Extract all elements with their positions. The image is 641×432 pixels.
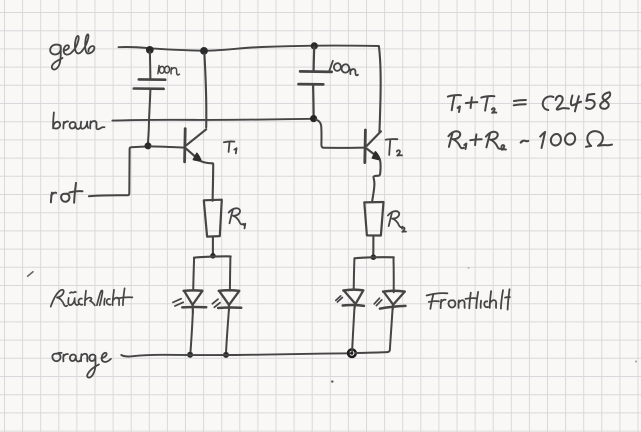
speck near formulas: [468, 267, 470, 269]
node orange rail ring: [348, 349, 356, 357]
wire collector T2: [379, 46, 381, 132]
label R1: [229, 208, 246, 228]
label orange: [52, 353, 111, 378]
node top rail junction 2: [200, 47, 208, 55]
node base junction T1: [145, 142, 152, 149]
node orange rail D2: [223, 352, 229, 358]
label R2: [388, 211, 406, 232]
node LED split right: [371, 254, 377, 260]
label Rücklicht: [51, 288, 133, 306]
wire D2 cathode to rail: [226, 310, 229, 353]
label rot: [51, 183, 83, 203]
formula line 2: R1 + R2 = 100 Ohm: [448, 131, 612, 150]
wire D4 return to ring node: [356, 310, 393, 353]
wire LED split bar right: [355, 257, 394, 258]
label T1: [224, 141, 237, 153]
LED D2: [212, 290, 241, 310]
wire collector T1: [204, 54, 206, 128]
transistor T2: [365, 130, 381, 163]
wire drop to D1: [192, 258, 195, 290]
wire base T1: [151, 146, 185, 147]
wire orange rail: [121, 353, 352, 356]
wire R2 to split: [372, 236, 374, 257]
capacitor C1 100n: [134, 52, 165, 146]
capacitor C2 100n: [299, 47, 332, 118]
wire R1 to split: [212, 237, 214, 256]
wire drop to D4: [393, 258, 395, 292]
transistor T1: [185, 129, 207, 162]
formula line 1: T1 + T2 = C2458: [448, 92, 610, 113]
label gelb: [50, 34, 94, 69]
wire D1 cathode to rail: [190, 313, 192, 353]
wire LED split bar left: [194, 256, 231, 257]
LED D4: [374, 291, 405, 310]
label 100n C2: [329, 61, 358, 76]
resistor R1: [204, 200, 222, 237]
wire drop to D3: [353, 258, 356, 289]
wire brown rail: [112, 119, 313, 121]
speck bottom middle: [331, 380, 333, 382]
wire emitter T2 to R2: [372, 160, 380, 202]
stray pencil mark: [28, 272, 33, 277]
node brown rail junction: [310, 115, 317, 122]
wire yellow top rail: [119, 46, 379, 51]
resistor R2: [364, 202, 383, 236]
LED D1: [173, 290, 206, 312]
label Frontlicht: [427, 289, 510, 309]
speck right edge: [635, 360, 637, 362]
node top rail junction 3: [311, 42, 318, 49]
node top rail junction 1: [146, 46, 154, 54]
label braun: [53, 112, 104, 129]
LED D3: [336, 290, 364, 309]
label T2: [386, 139, 402, 156]
node orange rail D1: [187, 352, 193, 358]
wire emitter T1 to R1: [201, 161, 213, 201]
label 100n C1: [158, 66, 180, 75]
wire drop to D2: [229, 257, 232, 291]
wire red input: [89, 147, 148, 197]
node LED split left: [210, 253, 216, 259]
wire D3 cathode to ring node: [352, 309, 354, 352]
wire base T2: [316, 120, 365, 148]
